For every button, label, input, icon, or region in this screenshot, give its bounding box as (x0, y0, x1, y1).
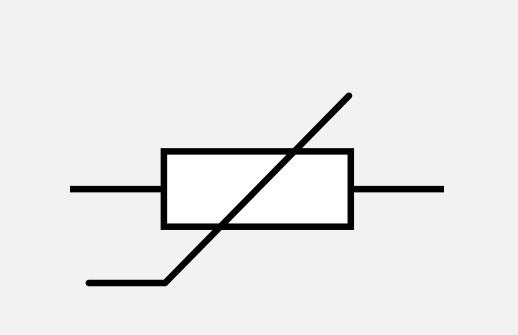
wire right lead (352, 186, 445, 193)
varistor RV1 diagonal stroke (nonlinearity mark) (165, 96, 349, 283)
varistor RV1 diagonal foot (horizontal tail) (89, 280, 165, 287)
wire left lead (70, 186, 164, 193)
varistor RV1 body (rectangle) (164, 151, 351, 226)
